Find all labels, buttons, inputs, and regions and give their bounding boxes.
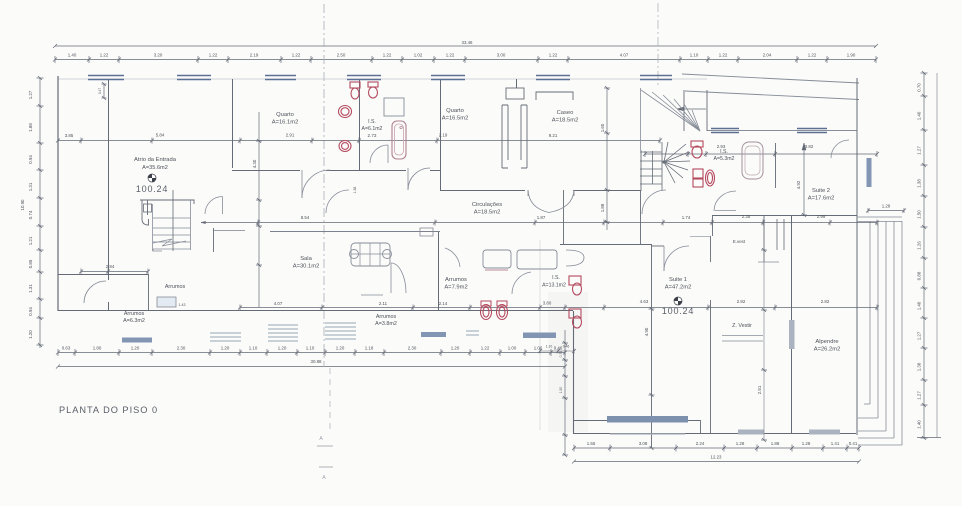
svg-text:1.22: 1.22	[549, 53, 558, 58]
svg-text:A=30.1m2: A=30.1m2	[293, 264, 320, 270]
WC top bowl	[351, 88, 359, 99]
svg-text:Quarto: Quarto	[276, 112, 294, 118]
svg-text:4.07: 4.07	[274, 301, 283, 306]
interior h-dim y154 ticks	[643, 151, 879, 157]
svg-text:1.00: 1.00	[508, 346, 517, 351]
svg-text:0.47: 0.47	[98, 88, 102, 94]
right overall dimension line	[936, 73, 938, 437]
svg-text:3.85: 3.85	[65, 133, 74, 138]
svg-text:0.63: 0.63	[62, 346, 71, 351]
bottom-right segmented dimension line	[574, 447, 859, 449]
svg-text:100.24: 100.24	[136, 184, 168, 194]
svg-text:Z. Vestir: Z. Vestir	[732, 323, 752, 329]
interior wall x108	[108, 79, 110, 280]
svg-text:Caseo: Caseo	[557, 110, 574, 116]
svg-text:1.27: 1.27	[28, 90, 33, 99]
hatch block 1	[210, 332, 241, 334]
svg-text:1.87: 1.87	[537, 215, 546, 220]
svg-text:Suite 1: Suite 1	[669, 277, 687, 283]
bathtub suite2	[742, 142, 763, 179]
svg-text:0.88: 0.88	[917, 271, 922, 280]
winder stair fan lower	[664, 144, 686, 162]
door arc caseo double left	[528, 190, 549, 213]
svg-text:A=26.2m2: A=26.2m2	[814, 347, 841, 353]
h-dim 1.28 alpendre top	[868, 210, 904, 212]
h-dim 2.84	[81, 271, 148, 273]
sofa arm right	[383, 250, 392, 259]
svg-text:1.60: 1.60	[600, 123, 605, 132]
svg-text:A=47.2m2: A=47.2m2	[665, 285, 692, 291]
svg-text:1.18: 1.18	[365, 346, 374, 351]
svg-text:A=3.8m2: A=3.8m2	[375, 321, 397, 327]
suite1 left wall dim	[651, 244, 653, 448]
zvestir wall	[710, 300, 712, 433]
top exterior wall	[58, 78, 707, 80]
top window 5	[431, 75, 465, 77]
svg-text:A=18.5m2: A=18.5m2	[552, 118, 579, 124]
section line B dashed top	[657, 3, 659, 86]
hatch block 4	[466, 330, 479, 332]
stair left bottom step	[153, 249, 162, 251]
suite1 big window bar	[607, 416, 688, 423]
svg-text:1.22: 1.22	[446, 53, 455, 58]
hatch block 3	[325, 322, 356, 324]
svg-text:0.46: 0.46	[563, 345, 570, 349]
svg-text:1.88: 1.88	[600, 203, 605, 212]
svg-text:3.00: 3.00	[497, 53, 506, 58]
WC right top bowl	[692, 146, 702, 158]
suite1 top wall stub	[651, 245, 664, 247]
WC extension 1 cistern	[569, 276, 581, 285]
stair left small square	[144, 204, 152, 212]
svg-text:1.20: 1.20	[28, 330, 33, 339]
svg-text:2.82: 2.82	[821, 299, 830, 304]
v-dim x764 zvestir	[763, 262, 765, 440]
svg-text:1.40: 1.40	[917, 420, 922, 429]
suite2 left wall	[775, 143, 777, 188]
stair left enclosure	[140, 200, 194, 225]
left segmented dimension line	[39, 78, 41, 348]
top window 4	[347, 75, 381, 77]
section line A-A vertical dashed	[323, 4, 325, 367]
svg-text:3.08: 3.08	[639, 441, 648, 446]
sala suite wall	[560, 244, 651, 246]
bottom-left overall dimension line 30.88	[58, 366, 565, 368]
hatch block 2	[268, 324, 298, 326]
svg-text:A=13.1m2: A=13.1m2	[542, 283, 566, 289]
svg-text:2.19: 2.19	[439, 133, 448, 138]
right dimension end tick	[917, 437, 941, 439]
svg-text:A=6.1m2: A=6.1m2	[362, 126, 383, 132]
svg-text:0.85: 0.85	[28, 259, 33, 268]
door arc arrumos mid	[445, 248, 460, 267]
svg-text:2.30: 2.30	[408, 346, 417, 351]
interior wall x516 caseo	[516, 79, 518, 88]
svg-text:1.26: 1.26	[917, 241, 922, 250]
svg-text:1.28: 1.28	[736, 441, 745, 446]
svg-text:2.24: 2.24	[696, 441, 705, 446]
extension left wall	[573, 311, 575, 434]
svg-text:4.07: 4.07	[620, 53, 629, 58]
top window 2	[177, 75, 211, 77]
sofa arm left	[350, 250, 359, 259]
left exterior wall	[57, 76, 59, 311]
arrumos left wall	[58, 274, 148, 276]
svg-text:PLANTA DO PISO 0: PLANTA DO PISO 0	[59, 405, 158, 415]
svg-text:1.38: 1.38	[917, 179, 922, 188]
door arc corridor mid	[326, 190, 349, 213]
svg-text:2.35: 2.35	[742, 214, 751, 219]
closet rect 2	[517, 250, 557, 269]
winder stair fan upper	[641, 90, 700, 131]
bidet oval left	[339, 141, 351, 152]
door arc caseo double right	[549, 190, 574, 213]
top segmented dimension line	[55, 59, 876, 61]
door arc closet	[714, 191, 736, 211]
svg-text:100.24: 100.24	[662, 306, 694, 316]
svg-text:1.20: 1.20	[336, 346, 345, 351]
svg-text:0.94: 0.94	[28, 155, 33, 164]
svg-text:1.90: 1.90	[847, 53, 856, 58]
svg-text:Atrio da Entrada: Atrio da Entrada	[134, 157, 177, 163]
svg-text:4.90: 4.90	[644, 327, 649, 336]
svg-text:33.46: 33.46	[462, 40, 474, 45]
svg-text:E.vest: E.vest	[733, 239, 746, 244]
right section window 2	[797, 128, 827, 130]
svg-text:10.90: 10.90	[20, 199, 25, 211]
zvestir alpendre pillar	[776, 219, 778, 250]
svg-text:1.28: 1.28	[802, 441, 811, 446]
WC bottom center 1	[481, 305, 492, 320]
svg-text:0.70: 0.70	[917, 83, 922, 92]
WC right top cistern	[691, 141, 703, 147]
svg-text:4.92: 4.92	[796, 180, 801, 189]
svg-text:1.88: 1.88	[771, 441, 780, 446]
svg-text:I.S.: I.S.	[720, 149, 728, 155]
svg-text:A=18.5m2: A=18.5m2	[474, 210, 501, 216]
svg-text:1.10: 1.10	[546, 345, 553, 349]
v-dim x565 extension	[564, 330, 566, 455]
svg-text:1.43: 1.43	[179, 303, 186, 307]
svg-text:2.84: 2.84	[106, 264, 115, 269]
nested corner vertical lines	[869, 221, 871, 404]
WC right oval	[706, 170, 715, 186]
top window 7	[640, 75, 672, 77]
winder stair treads	[640, 151, 662, 153]
svg-text:2.11: 2.11	[379, 301, 388, 306]
svg-text:1.10: 1.10	[306, 346, 315, 351]
window bar bottom 2	[523, 333, 556, 339]
svg-text:1.38: 1.38	[353, 187, 357, 194]
sofa sala	[351, 243, 390, 266]
basin niche	[566, 250, 584, 266]
bidet top bowl	[369, 87, 378, 98]
corridor bottom wall	[213, 230, 245, 232]
svg-text:A=5.3m2: A=5.3m2	[714, 156, 735, 162]
svg-text:Arrumos: Arrumos	[376, 314, 397, 320]
fireplace brackets	[502, 105, 527, 168]
svg-text:A=17.6m2: A=17.6m2	[808, 196, 835, 202]
h-dim small extension corner	[540, 350, 574, 352]
left corner tiny dimension	[103, 84, 105, 98]
svg-text:1.10: 1.10	[249, 346, 258, 351]
corridor right wall x640	[640, 190, 642, 244]
fixture pair square 2	[693, 179, 703, 187]
svg-text:1.31: 1.31	[28, 284, 33, 293]
bottom interior h-dim ticks	[238, 305, 879, 311]
v-dim x607	[606, 88, 608, 230]
door frame rect bottom	[157, 297, 176, 307]
fireplace chimney rect	[506, 88, 524, 99]
svg-text:12.23: 12.23	[711, 455, 723, 460]
sink oval left	[339, 106, 352, 118]
stair direction arrow	[677, 108, 706, 110]
stair door stub	[213, 228, 215, 252]
right exterior wall upper	[856, 78, 858, 215]
svg-text:I.S.: I.S.	[552, 275, 560, 281]
closet rail	[722, 335, 763, 337]
closet rect 1	[483, 250, 511, 268]
extension bottom wall	[573, 433, 856, 435]
window bar left bottom	[122, 338, 152, 343]
right dimension line	[923, 73, 925, 438]
bottom-right dimension ticks	[572, 445, 861, 452]
svg-text:Arrumos: Arrumos	[165, 284, 186, 290]
svg-text:1.22: 1.22	[100, 53, 109, 58]
top window 6	[536, 75, 570, 77]
section marker A lower	[319, 466, 333, 468]
svg-text:8.54: 8.54	[301, 215, 310, 220]
left dimension ticks	[37, 76, 44, 347]
svg-text:1.50: 1.50	[917, 210, 922, 219]
stair left treads	[153, 217, 190, 219]
svg-text:5.84: 5.84	[156, 133, 165, 138]
svg-text:1.22: 1.22	[719, 53, 728, 58]
svg-text:1.74: 1.74	[682, 215, 691, 220]
corridor h-dim y222	[201, 222, 877, 224]
bottom interior h-dim y307	[240, 307, 877, 309]
v-dim x259	[258, 112, 260, 307]
svg-text:1.27: 1.27	[917, 146, 922, 155]
svg-text:A=35.6m2: A=35.6m2	[142, 165, 168, 171]
svg-text:2.14: 2.14	[439, 301, 448, 306]
svg-text:1.20: 1.20	[278, 346, 287, 351]
svg-text:1.20: 1.20	[131, 346, 140, 351]
overall top dimension line 33.46	[55, 45, 876, 47]
door arc atrio	[205, 197, 223, 215]
svg-text:30.88: 30.88	[311, 359, 323, 364]
svg-text:1.22: 1.22	[481, 346, 490, 351]
svg-text:1.41: 1.41	[831, 441, 840, 446]
svg-text:A=16.5m2: A=16.5m2	[442, 116, 469, 122]
svg-text:1.22: 1.22	[292, 53, 301, 58]
svg-text:0.74: 0.74	[28, 210, 33, 219]
svg-text:1.55: 1.55	[587, 441, 596, 446]
svg-text:0.75: 0.75	[559, 351, 563, 358]
interior wall x359 IS left	[359, 79, 361, 170]
svg-text:A=7.9m2: A=7.9m2	[444, 285, 467, 291]
WC extension 2 cistern	[569, 309, 581, 318]
small cabinet rect	[420, 228, 433, 236]
right section window 1	[711, 128, 739, 130]
interior wall x440	[440, 79, 442, 190]
svg-text:Alpendre: Alpendre	[815, 339, 838, 345]
svg-text:1.22: 1.22	[383, 53, 392, 58]
door arc IS3	[512, 272, 531, 294]
svg-text:1.02: 1.02	[414, 53, 423, 58]
v-dim x651 suite1	[649, 307, 655, 450]
door arc suite1	[664, 246, 689, 271]
WC extension 2 bowl	[573, 316, 582, 328]
svg-text:2.73: 2.73	[368, 133, 377, 138]
scan shade band	[548, 292, 588, 432]
svg-text:1.40: 1.40	[68, 53, 77, 58]
suite2 bottom wall	[712, 215, 857, 217]
door arc arrumos left	[84, 281, 106, 303]
closet right wall	[763, 215, 765, 262]
bottom exterior wall main block	[58, 310, 573, 312]
svg-text:A=16.1m2: A=16.1m2	[272, 120, 299, 126]
svg-text:1.21: 1.21	[28, 236, 33, 245]
svg-text:3.82: 3.82	[805, 144, 814, 149]
roof overhang line 2	[685, 91, 859, 100]
svg-text:I.S.: I.S.	[368, 119, 376, 125]
svg-text:2.51: 2.51	[757, 385, 762, 394]
level marker suite1	[674, 297, 682, 305]
svg-text:Quarto: Quarto	[446, 108, 464, 114]
caseo right wall	[563, 190, 565, 244]
level marker atrio	[148, 174, 156, 182]
svg-text:2.99: 2.99	[817, 214, 826, 219]
door arc quarto1	[302, 170, 330, 198]
WC top cistern	[350, 82, 360, 88]
svg-text:1.10: 1.10	[690, 53, 699, 58]
top window 3	[265, 75, 296, 77]
interior wall x232 quarto1	[232, 79, 234, 168]
svg-text:1.31: 1.31	[28, 182, 33, 191]
svg-text:Circulações: Circulações	[472, 202, 502, 208]
closet left wall stub	[712, 215, 714, 236]
right section top wall	[707, 130, 857, 132]
bottom-right overall dimension line 12.23	[574, 461, 859, 463]
stairwell corner wall	[683, 90, 685, 131]
svg-text:1.27: 1.27	[917, 331, 922, 340]
window bar bottom 1	[421, 332, 446, 337]
interior h-dim y140 ticks	[56, 138, 662, 144]
svg-text:Suite 2: Suite 2	[812, 188, 830, 194]
right vertical window bar	[867, 158, 872, 187]
v-dim x804 suite2	[803, 143, 805, 215]
fireplace top bracket	[536, 92, 573, 100]
svg-text:4.30: 4.30	[252, 159, 257, 168]
stairwell left wall	[640, 88, 642, 150]
nested corner bottom lines	[864, 403, 870, 405]
bathtub IS1	[392, 121, 406, 159]
bottom-left segmented dimension line	[58, 352, 565, 354]
suite1 bottom wall	[573, 420, 700, 422]
svg-text:1.40: 1.40	[917, 301, 922, 310]
svg-text:2.50: 2.50	[337, 53, 346, 58]
svg-text:9.21: 9.21	[549, 133, 558, 138]
corridor h-dim ticks	[256, 220, 879, 226]
svg-text:1.50: 1.50	[559, 387, 563, 394]
closet rect 1 pink line	[485, 269, 508, 271]
svg-text:2.82: 2.82	[737, 299, 746, 304]
svg-text:A=6.3m2: A=6.3m2	[123, 318, 145, 324]
svg-text:1.20: 1.20	[451, 346, 460, 351]
nested corner top lines	[857, 216, 902, 218]
svg-text:2.30: 2.30	[177, 346, 186, 351]
svg-text:2.04: 2.04	[763, 53, 772, 58]
svg-text:1.20: 1.20	[221, 346, 230, 351]
svg-text:0.41: 0.41	[849, 441, 858, 446]
winder stair hub	[662, 160, 665, 163]
interior h-dim y140	[58, 140, 660, 142]
svg-text:2.91: 2.91	[286, 133, 295, 138]
bottom gray bar 2	[809, 430, 840, 435]
top window 1	[88, 75, 124, 77]
WC extension 1 bowl	[573, 283, 582, 295]
svg-text:2.19: 2.19	[250, 53, 259, 58]
svg-text:4.63: 4.63	[640, 299, 649, 304]
suite1 bottom wall connector	[700, 420, 702, 434]
suite1 window sill line	[610, 433, 685, 435]
alpendre vertical window bar	[789, 320, 795, 349]
top dimension ticks	[53, 56, 878, 63]
WC bottom center 2	[497, 305, 508, 320]
corridor top wall left	[232, 170, 300, 172]
svg-text:1.27: 1.27	[917, 391, 922, 400]
door arc suite2	[831, 140, 849, 158]
door arc sala	[391, 263, 406, 293]
svg-text:1.22: 1.22	[209, 53, 218, 58]
svg-text:3.20: 3.20	[154, 53, 163, 58]
stair left rails	[172, 190, 174, 251]
svg-text:1.22: 1.22	[808, 53, 817, 58]
scan crease line	[539, 240, 541, 430]
svg-text:1.80: 1.80	[93, 346, 102, 351]
door arc IS interior	[370, 145, 388, 163]
bidet top cistern	[368, 82, 378, 87]
svg-text:1.38: 1.38	[917, 362, 922, 371]
alpendre left wall	[791, 215, 793, 433]
interior h-dim y154 right	[645, 153, 877, 155]
svg-text:1.28: 1.28	[882, 204, 891, 209]
svg-text:Arrumos: Arrumos	[445, 277, 467, 283]
svg-text:1.40: 1.40	[917, 111, 922, 120]
sala table dash	[361, 294, 383, 296]
svg-text:0.94: 0.94	[28, 307, 33, 316]
corridor top wall right	[440, 190, 525, 192]
bottom-left dimension ticks	[56, 349, 567, 356]
stair left break line	[153, 239, 186, 246]
door arc corridor right	[642, 190, 666, 214]
svg-text:Sala: Sala	[300, 256, 312, 262]
svg-text:3.80: 3.80	[543, 301, 552, 306]
door arc IS top	[408, 168, 430, 190]
svg-text:Arrumos: Arrumos	[124, 311, 145, 317]
right dimension ticks	[921, 71, 928, 440]
bottom gray bar 1	[738, 430, 764, 435]
svg-text:1.88: 1.88	[28, 123, 33, 132]
roof overhang line 1	[682, 74, 859, 83]
shower tray	[384, 98, 404, 116]
alpendre inner right wall	[856, 215, 858, 435]
section line A-A lower tail	[329, 368, 331, 430]
fixture pair square 1	[693, 169, 703, 178]
